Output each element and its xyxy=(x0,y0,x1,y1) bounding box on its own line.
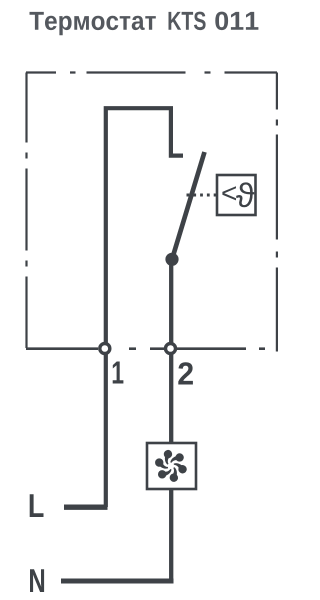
enclosure boundary bottom edge dot between terminals xyxy=(129,347,136,350)
title: Термостат KTS 011 xyxy=(30,12,259,36)
temperature sensor label < xyxy=(222,186,236,200)
L terminal label xyxy=(30,494,44,517)
temperature sensor box U1 xyxy=(217,175,256,215)
wire: terminal 1 down to L xyxy=(104,349,108,507)
wire: top step from terminal 1 riser to fixed contact xyxy=(106,108,183,343)
terminal 2 circle xyxy=(166,344,176,354)
switch blade (thermostat contact) xyxy=(172,152,205,259)
enclosure boundary bottom edge stub into terminal 2 xyxy=(150,347,164,350)
temperature sensor label ϑ xyxy=(236,182,254,207)
switch pivot junction dot xyxy=(165,253,178,266)
wire: fan to N corner xyxy=(169,489,173,583)
terminal 1 label xyxy=(113,362,124,384)
wire: N line xyxy=(61,579,174,584)
wire: L line stub xyxy=(64,505,108,510)
dotted actuator link to temperature sensor xyxy=(187,194,217,197)
terminal 1 circle xyxy=(100,344,110,354)
fan motor box M1 xyxy=(147,443,196,489)
wire: pivot down through terminal 2 to fan xyxy=(169,259,173,443)
N terminal label xyxy=(30,569,44,592)
terminal 2 label xyxy=(178,362,193,384)
enclosure boundary right edge xyxy=(276,73,278,353)
enclosure boundary bottom edge dot near right corner xyxy=(259,347,265,350)
enclosure boundary bottom edge segment right of terminal 2 xyxy=(177,347,246,350)
enclosure boundary (dash-dot box) top edge xyxy=(26,71,277,73)
enclosure boundary bottom edge segment (left solid to terminal 1) xyxy=(26,347,98,350)
fan impeller icon xyxy=(151,446,191,486)
enclosure boundary left edge xyxy=(25,73,27,349)
